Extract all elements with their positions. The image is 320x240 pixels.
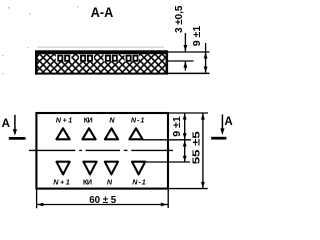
svg-text:3 ±0,5: 3 ±0,5 — [174, 5, 185, 33]
svg-text:A-A: A-A — [91, 5, 114, 20]
svg-text:60 ± 5: 60 ± 5 — [89, 195, 116, 206]
svg-text:55 ±5: 55 ±5 — [191, 131, 203, 164]
svg-text:N+1: N+1 — [56, 115, 73, 124]
svg-text:N-1: N-1 — [131, 115, 145, 124]
svg-text:N+1: N+1 — [53, 178, 70, 187]
svg-text:A: A — [224, 116, 232, 128]
svg-text:N: N — [109, 115, 115, 124]
svg-text:КИ: КИ — [83, 178, 92, 187]
svg-text:A: A — [2, 118, 10, 130]
svg-text:N: N — [107, 178, 113, 187]
svg-text:9 ±1: 9 ±1 — [172, 116, 183, 137]
svg-text:КИ: КИ — [84, 115, 93, 124]
svg-text:9 ±1: 9 ±1 — [192, 25, 203, 46]
svg-text:N-1: N-1 — [132, 178, 146, 187]
